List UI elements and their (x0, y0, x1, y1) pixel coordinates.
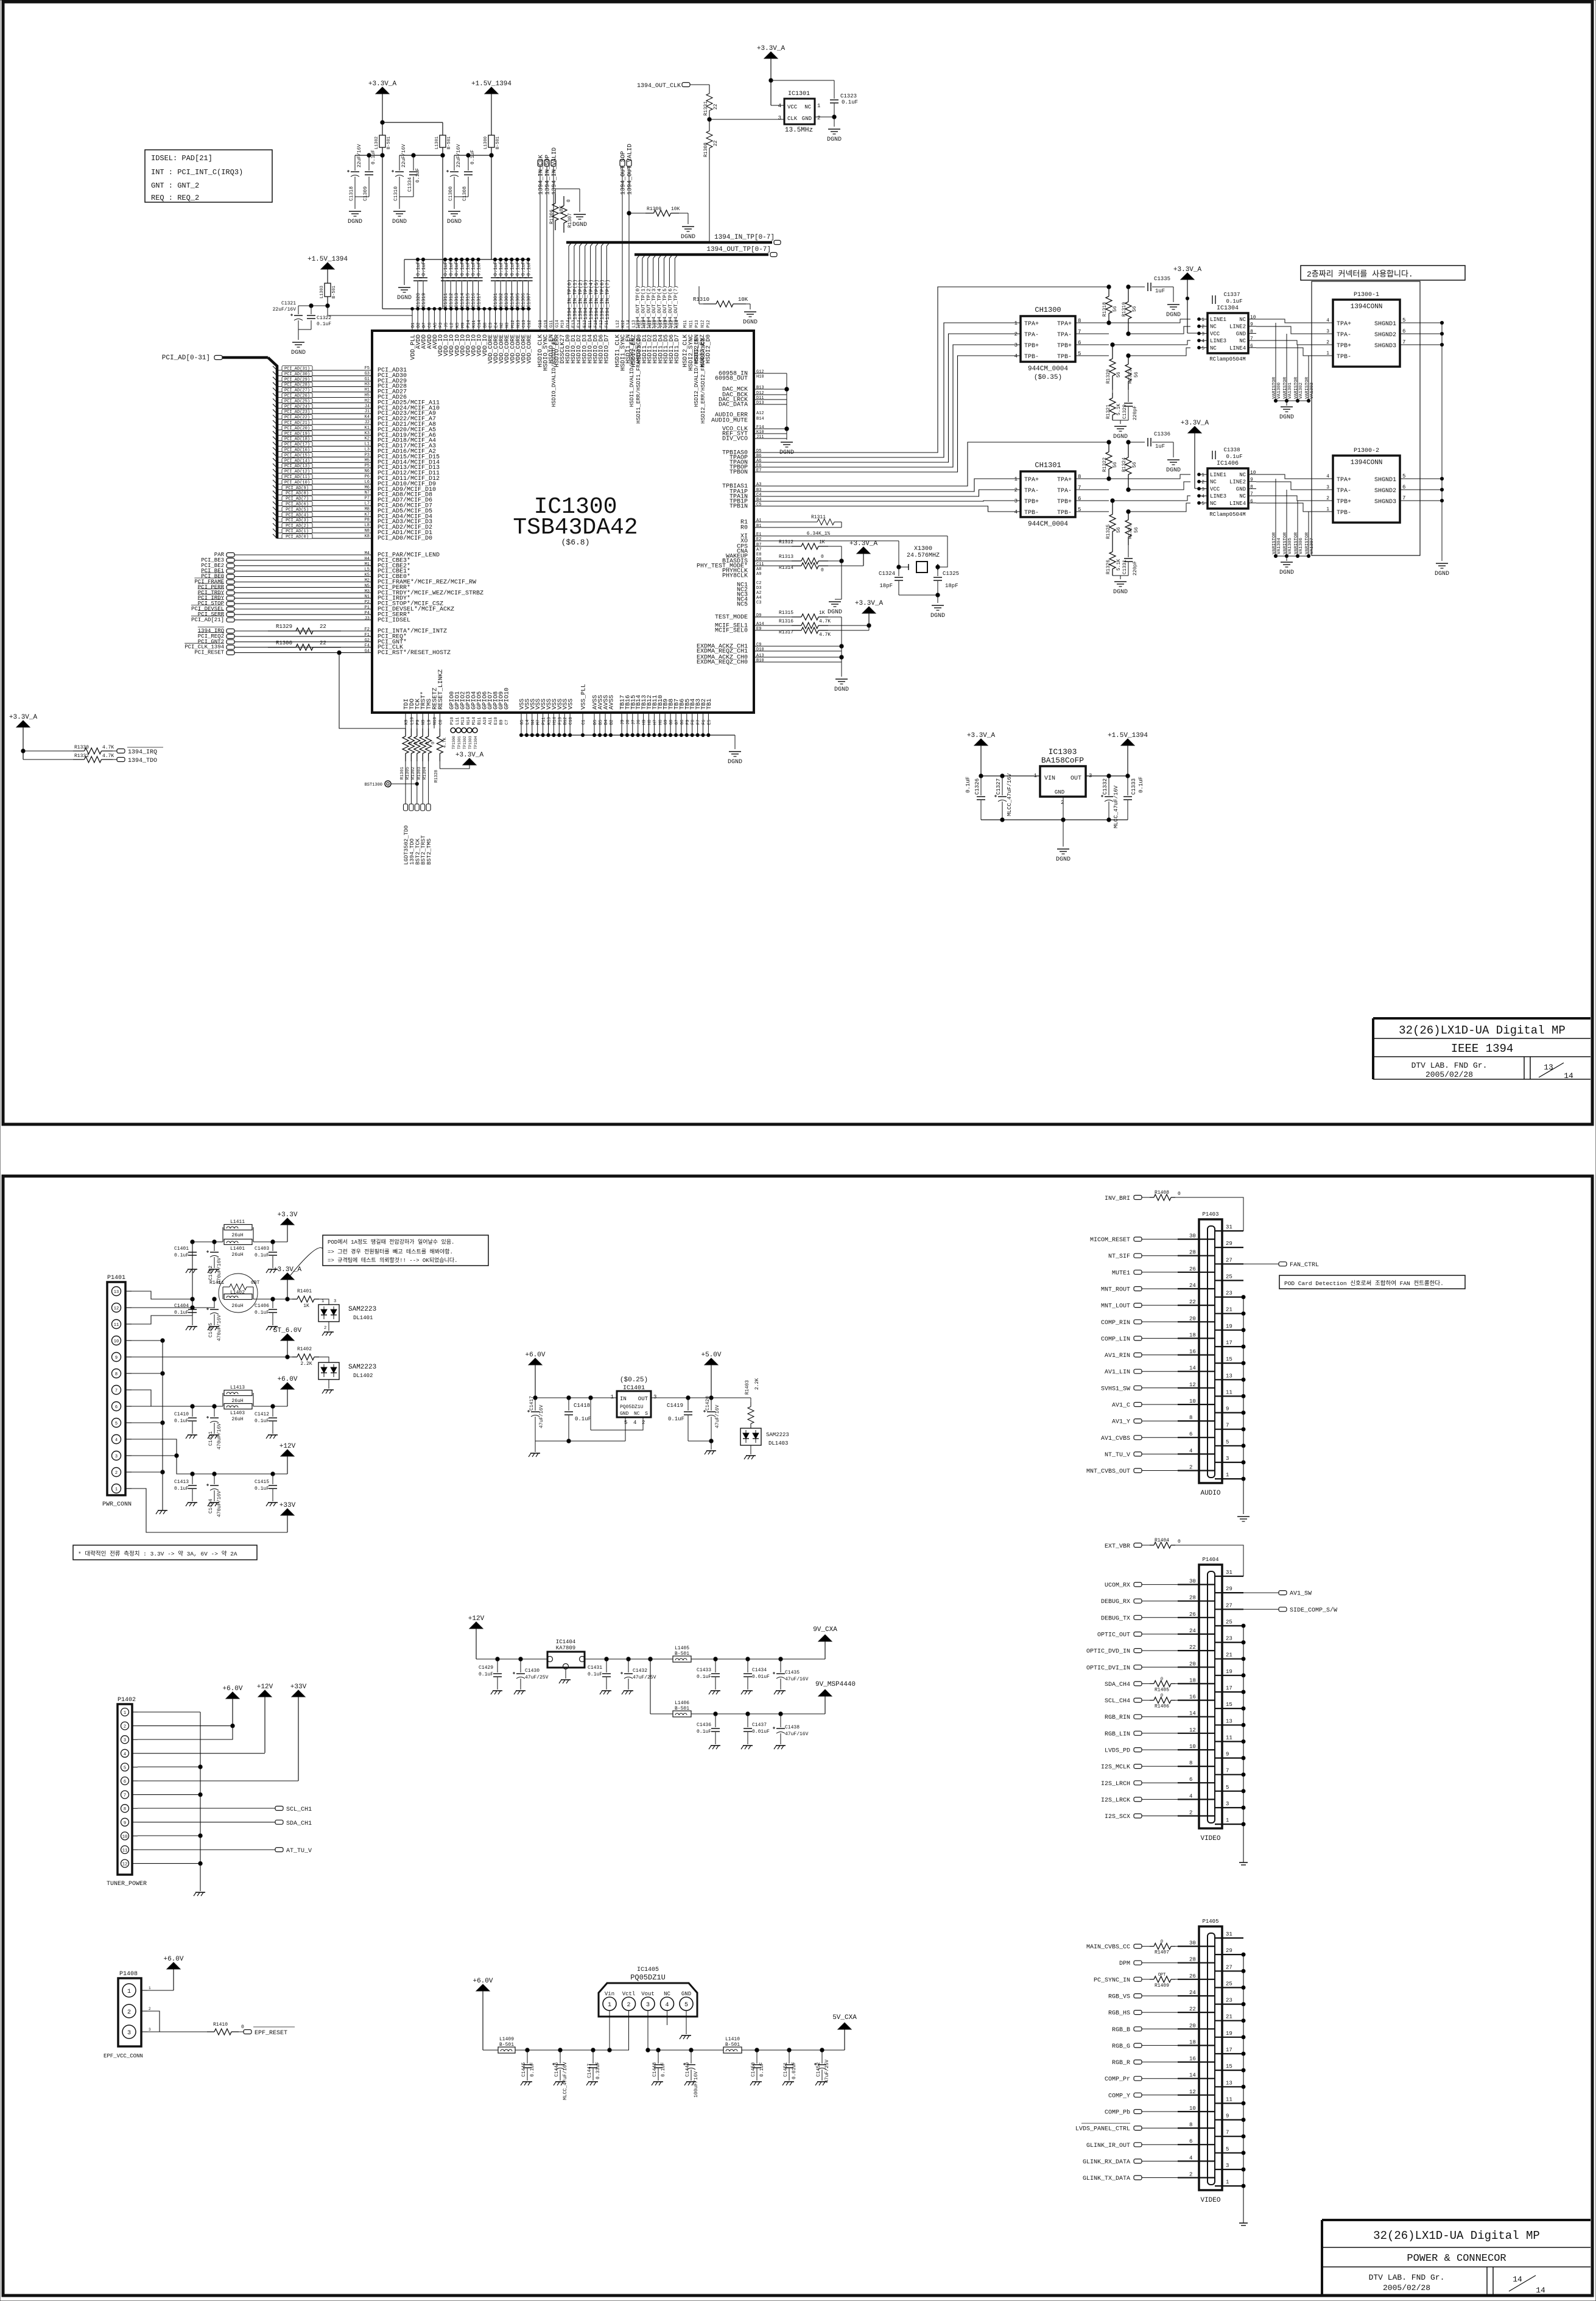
svg-text:0: 0 (1161, 1940, 1163, 1945)
svg-text:DGND: DGND (930, 613, 945, 619)
svg-text:R1325: R1325 (1106, 524, 1111, 539)
svg-text:1: 1 (1326, 507, 1329, 512)
svg-text:R1405: R1405 (1155, 1687, 1169, 1693)
svg-text:H1: H1 (365, 388, 370, 393)
svg-text:AV1_LIN: AV1_LIN (1105, 1369, 1130, 1376)
capacitor C1402 470uF/16V (206, 1240, 222, 1284)
svg-text:23: 23 (1226, 1291, 1232, 1297)
P1403 left signal terminals (1086, 1237, 1199, 1475)
svg-text:C1405: C1405 (208, 1323, 214, 1337)
svg-text:Vctl: Vctl (622, 1991, 636, 1997)
svg-text:27: 27 (1226, 1257, 1232, 1263)
svg-text:10: 10 (1250, 315, 1256, 320)
P1405 right pins and ground bus (1215, 1931, 1243, 2186)
svg-text:IC1304: IC1304 (1217, 305, 1239, 312)
svg-text:0.1uF: 0.1uF (527, 261, 532, 276)
wire VSS ground rail to DGND (521, 735, 742, 766)
svg-text:CLK: CLK (787, 116, 798, 122)
svg-text:9V_CXA: 9V_CXA (813, 1626, 837, 1633)
svg-text:TPA-: TPA- (1337, 332, 1351, 339)
svg-text:TPA-: TPA- (1057, 488, 1072, 495)
svg-text:RGB_HS: RGB_HS (1108, 2010, 1130, 2017)
P1404 left pins (1178, 1579, 1215, 1816)
svg-text:POD에서 1A정도 땡길때 전압강하가 일어날수 있음.: POD에서 1A정도 땡길때 전압강하가 일어날수 있음. (328, 1238, 454, 1246)
svg-text:HSDIO_D7: HSDIO_D7 (604, 334, 611, 364)
svg-text:944CM_0004: 944CM_0004 (1028, 521, 1068, 528)
svg-text:P1408: P1408 (119, 1971, 138, 1978)
svg-text:G3: G3 (365, 372, 370, 376)
svg-text:0.1uF: 0.1uF (842, 99, 858, 105)
regulator IC1401 PQ05DZ1U (611, 1376, 657, 1426)
terminal SDA_CH1 (275, 1820, 312, 1827)
svg-text:G1: G1 (365, 377, 370, 382)
svg-text:LINE1: LINE1 (1210, 472, 1226, 478)
svg-text:VA1306: VA1306 (1299, 537, 1304, 554)
svg-text:K3: K3 (365, 431, 370, 436)
svg-text:A10: A10 (483, 717, 488, 725)
svg-text:R1411: R1411 (209, 1280, 224, 1286)
svg-text:1K: 1K (819, 540, 825, 545)
test points TP1300-TP1304 (451, 728, 478, 749)
svg-text:+3.3V: +3.3V (277, 1211, 297, 1219)
power +6.0V flag at P1408 (163, 1956, 183, 1990)
svg-text:TPA-: TPA- (1057, 332, 1072, 339)
svg-text:PCI_RST*/RESET_HOSTZ: PCI_RST*/RESET_HOSTZ (378, 649, 451, 657)
svg-text:+3.3V_A: +3.3V_A (855, 600, 884, 607)
svg-text:31: 31 (1226, 1570, 1232, 1576)
svg-text:HSDIO_DVALID/HSDIO_EN: HSDIO_DVALID/HSDIO_EN (551, 338, 557, 407)
svg-text:PCI_AD(6): PCI_AD(6) (286, 502, 309, 507)
svg-text:J4: J4 (365, 404, 370, 409)
svg-text:22: 22 (1189, 2006, 1196, 2012)
svg-text:HSDI2_D0: HSDI2_D0 (706, 334, 712, 364)
svg-text:1394CONN: 1394CONN (1351, 459, 1383, 467)
svg-text:TPB+: TPB+ (1337, 499, 1351, 506)
svg-text:I2S_LRCH: I2S_LRCH (1101, 1781, 1130, 1788)
svg-text:4.7K: 4.7K (819, 619, 831, 624)
svg-text:NC5: NC5 (737, 602, 748, 608)
svg-text:C4: C4 (756, 493, 761, 498)
capacitor C1410 0.1uF (174, 1406, 197, 1439)
svg-text:TPB-: TPB- (1337, 510, 1351, 516)
svg-text:0.01uF: 0.01uF (752, 1729, 770, 1735)
svg-text:1K: 1K (819, 610, 825, 616)
svg-text:N1: N1 (365, 594, 370, 599)
svg-text:C1431: C1431 (588, 1665, 602, 1671)
svg-text:VARISTOR: VARISTOR (1283, 376, 1288, 399)
svg-text:P3: P3 (365, 453, 370, 457)
svg-text:R1312: R1312 (779, 540, 793, 545)
svg-text:L9: L9 (427, 720, 432, 725)
title block page 2 (1322, 2220, 1591, 2296)
IC1300 right pin names and numbers (697, 370, 764, 666)
svg-text:AV1_CVBS: AV1_CVBS (1101, 1436, 1130, 1442)
svg-text:1: 1 (817, 103, 820, 109)
svg-text:PCI_AD(7): PCI_AD(7) (286, 497, 309, 502)
svg-text:LINE4: LINE4 (1229, 345, 1246, 351)
diode DL1402 SAM2223 (318, 1362, 376, 1394)
svg-text:TPA+: TPA+ (1057, 321, 1072, 328)
svg-text:25: 25 (1226, 1619, 1232, 1625)
svg-text:5: 5 (124, 1766, 126, 1771)
inductor L1301 B-501 (435, 122, 452, 309)
svg-text:+33V: +33V (290, 1683, 307, 1691)
svg-text:PCI_AD(0): PCI_AD(0) (286, 535, 309, 540)
svg-text:4.7K: 4.7K (102, 745, 114, 750)
svg-text:47uF/25V: 47uF/25V (525, 1675, 549, 1680)
svg-text:3: 3 (334, 1299, 336, 1304)
svg-text:K4: K4 (365, 415, 370, 420)
svg-text:C1307: C1307 (527, 293, 532, 308)
svg-text:GND: GND (1236, 331, 1246, 337)
svg-text:C1313: C1313 (454, 293, 460, 308)
svg-text:3: 3 (1226, 2163, 1229, 2169)
capacitor C1418 0.1uF (564, 1398, 591, 1443)
svg-text:TEST_MODE: TEST_MODE (715, 615, 748, 621)
resistor R1322 56 (1102, 440, 1118, 481)
svg-text:L1303: L1303 (320, 286, 325, 298)
svg-text:24: 24 (1189, 1283, 1196, 1289)
resistor R1312 1K (754, 540, 842, 549)
svg-text:R1408: R1408 (1155, 1190, 1169, 1196)
svg-text:P1402: P1402 (118, 1697, 136, 1704)
svg-text:E10: E10 (494, 717, 499, 725)
capacitor C1417 47uF/16V (527, 1396, 617, 1441)
svg-text:P1403: P1403 (1202, 1211, 1218, 1217)
svg-text:1: 1 (1201, 317, 1204, 323)
svg-text:TPB1N: TPB1N (729, 504, 748, 510)
wire EXDMA rows to DGND (754, 644, 849, 693)
svg-text:4: 4 (1201, 339, 1204, 344)
resistor R1311 6.34K_1% (754, 515, 842, 537)
svg-text:K9: K9 (404, 720, 409, 725)
svg-text:R1331: R1331 (703, 101, 709, 116)
svg-text:PCI_AD(8): PCI_AD(8) (286, 492, 309, 496)
svg-text:18pF: 18pF (879, 583, 893, 589)
svg-text:21: 21 (1226, 1307, 1232, 1313)
oscillator IC1301 13.5MHz (778, 91, 821, 134)
svg-text:G6: G6 (680, 720, 685, 725)
svg-text:MLCC_47uF/16V: MLCC_47uF/16V (563, 2062, 568, 2100)
svg-text:R1303: R1303 (417, 767, 422, 780)
svg-text:2: 2 (115, 1471, 118, 1476)
svg-text:($0.35): ($0.35) (1034, 374, 1062, 381)
svg-text:5: 5 (624, 1420, 627, 1426)
svg-text:G10: G10 (544, 320, 549, 328)
P1405 ground bus (1242, 1953, 1245, 2223)
svg-text:2: 2 (1326, 496, 1329, 501)
svg-text:NT_TU_V: NT_TU_V (1105, 1452, 1130, 1459)
svg-text:C1: C1 (582, 720, 586, 725)
capacitor C1448 0.1uF (652, 2048, 666, 2085)
power +6.0V flag at P1402 (222, 1685, 242, 1725)
svg-text:3: 3 (1326, 329, 1329, 334)
svg-text:0.1uF: 0.1uF (1138, 777, 1144, 793)
svg-text:R1313: R1313 (779, 554, 793, 560)
svg-text:RGB_RIN: RGB_RIN (1105, 1714, 1130, 1721)
svg-text:1uF: 1uF (1155, 288, 1165, 294)
svg-text:N6: N6 (365, 469, 370, 474)
op-amp U1 main IC IC1300 TSB43DA42 body (372, 331, 754, 713)
ground DGND near R1306 (572, 189, 587, 228)
svg-text:C12: C12 (527, 320, 532, 328)
svg-text:+3.3V_A: +3.3V_A (368, 80, 397, 88)
resistor R1403 2.2K (745, 1378, 760, 1428)
capacitor C1451 0.01uF (782, 2050, 797, 2085)
svg-text:VARISTOR: VARISTOR (1305, 532, 1310, 554)
svg-text:2층짜리 커넥터를 사용합니다.: 2층짜리 커넥터를 사용합니다. (1307, 270, 1413, 279)
svg-text:2.2K: 2.2K (300, 1361, 312, 1367)
svg-text:NC: NC (664, 1991, 670, 1997)
svg-text:P12: P12 (706, 320, 711, 328)
IC1300 top pins HSDI2 group (683, 320, 712, 423)
capacitor C1323 0.1uF (815, 93, 858, 143)
capacitor C1420 47uF/16V (688, 1396, 720, 1454)
svg-text:F3: F3 (439, 323, 444, 328)
svg-text:TPB-: TPB- (1337, 354, 1351, 361)
svg-text:R1308: R1308 (703, 143, 709, 157)
svg-text:4: 4 (665, 2002, 669, 2009)
svg-text:PCI_AD(17): PCI_AD(17) (284, 443, 310, 448)
capacitor C1435 47uF/16V (773, 1659, 809, 1694)
svg-text:+12V: +12V (257, 1683, 273, 1691)
svg-text:P6: P6 (365, 474, 370, 479)
wires P1402 pins (138, 1712, 298, 1891)
filter CH1301 944CM_0004 (1014, 461, 1109, 528)
resistor R1329 22 (268, 624, 341, 634)
svg-text:C1322: C1322 (317, 315, 331, 321)
svg-text:K10: K10 (756, 430, 764, 435)
svg-text:D8: D8 (756, 557, 761, 562)
svg-text:DAC_DATA: DAC_DATA (719, 402, 748, 409)
svg-text:K12: K12 (621, 320, 626, 328)
svg-text:PCI_AD(4): PCI_AD(4) (286, 513, 309, 518)
svg-text:VARISTOR: VARISTOR (1272, 376, 1277, 399)
svg-text:G7: G7 (675, 720, 680, 725)
svg-text:DEBUG_RX: DEBUG_RX (1101, 1599, 1130, 1605)
svg-text:C1308: C1308 (462, 186, 468, 201)
svg-text:PCI_IDSEL: PCI_IDSEL (378, 617, 410, 624)
svg-text:F14: F14 (756, 425, 764, 430)
svg-text:+5.0V: +5.0V (701, 1351, 721, 1359)
svg-text:30: 30 (1189, 1579, 1196, 1585)
svg-text:K8: K8 (365, 534, 370, 539)
svg-text:MAIN_CVBS_CC: MAIN_CVBS_CC (1086, 1944, 1130, 1951)
svg-text:TPB-: TPB- (1057, 354, 1072, 361)
svg-text:A6: A6 (756, 459, 761, 463)
svg-text:REQ : REQ_2: REQ : REQ_2 (151, 194, 199, 202)
svg-text:C1325: C1325 (943, 571, 959, 577)
svg-text:22uF/16V: 22uF/16V (401, 144, 407, 167)
page 1 border frame (3, 2, 1592, 1124)
svg-text:POWER & CONNECOR: POWER & CONNECOR (1407, 2253, 1506, 2264)
svg-text:LINE3: LINE3 (1210, 493, 1226, 499)
svg-text:47uF/25V: 47uF/25V (633, 1675, 656, 1680)
svg-text:1: 1 (1201, 473, 1204, 478)
svg-text:22: 22 (1189, 1299, 1196, 1305)
svg-text:DTV LAB. FND Gr.: DTV LAB. FND Gr. (1411, 1061, 1488, 1070)
svg-text:+6.0V: +6.0V (222, 1685, 242, 1693)
IC1300 bottom pins VSS group (519, 684, 588, 737)
svg-text:PCI_AD(2): PCI_AD(2) (286, 524, 309, 529)
svg-text:IEEE 1394: IEEE 1394 (1451, 1042, 1514, 1055)
connector P1401 PWR_CONN (102, 1275, 132, 1508)
svg-text:C1301: C1301 (493, 293, 499, 308)
svg-text:17: 17 (1226, 1340, 1232, 1346)
svg-text:SCL_CH1: SCL_CH1 (286, 1806, 312, 1813)
svg-text:C1418: C1418 (574, 1403, 590, 1409)
svg-text:3: 3 (1326, 485, 1329, 490)
inductor L1413 26uH and L1403 26uH (191, 1385, 287, 1422)
svg-text:3: 3 (1014, 498, 1018, 504)
svg-text:P7: P7 (365, 496, 370, 501)
svg-text:A9: A9 (756, 572, 761, 577)
svg-text:TPB+: TPB+ (1024, 343, 1039, 350)
svg-text:R1402: R1402 (297, 1347, 312, 1352)
svg-text:56: 56 (1113, 306, 1118, 312)
svg-text:9: 9 (115, 1356, 118, 1361)
svg-text:5V_CXA: 5V_CXA (832, 2014, 857, 2021)
svg-text:C1414: C1414 (208, 1499, 214, 1513)
P1404 ground bus (1242, 1624, 1245, 1862)
svg-text:R1306: R1306 (549, 210, 555, 224)
svg-text:R1322: R1322 (1102, 457, 1108, 472)
svg-text:R1324: R1324 (1122, 457, 1127, 472)
svg-text:I2S_LRCK: I2S_LRCK (1101, 1797, 1130, 1804)
resistor R1300 22 (268, 640, 341, 650)
svg-text:C1417: C1417 (529, 1396, 535, 1411)
capacitor C1324 18pF (879, 565, 903, 595)
svg-text:L1402: L1402 (230, 1290, 245, 1295)
P1405 left signal terminals (1075, 1940, 1199, 2182)
svg-text:DGND: DGND (1056, 856, 1070, 863)
resistor R1317 4.7K (754, 625, 869, 638)
svg-text:1: 1 (124, 1711, 126, 1716)
svg-text:1: 1 (1014, 476, 1018, 482)
svg-text:SDA_CH1: SDA_CH1 (286, 1820, 312, 1827)
svg-text:C1338: C1338 (1223, 447, 1240, 453)
wire TPBIAS1 to filter rail (754, 442, 1109, 486)
svg-text:16: 16 (1189, 2056, 1196, 2062)
svg-text:TP1304: TP1304 (474, 736, 478, 749)
svg-text:8: 8 (1189, 1760, 1192, 1766)
svg-text:D4: D4 (604, 720, 609, 725)
svg-text:10K: 10K (738, 297, 748, 303)
svg-text:M5: M5 (365, 458, 370, 463)
svg-text:0.1uF: 0.1uF (521, 261, 527, 276)
outline box around 1394 connectors (1312, 281, 1420, 555)
svg-text:C1310: C1310 (393, 186, 399, 201)
svg-text:F11: F11 (605, 320, 610, 328)
capacitor row C1319 C1320 decoupling (382, 258, 533, 331)
svg-text:2: 2 (1014, 487, 1018, 493)
svg-text:C1316: C1316 (471, 293, 477, 308)
svg-text:MUTE1: MUTE1 (1112, 1270, 1130, 1277)
svg-text:0.1uF: 0.1uF (588, 1672, 602, 1677)
svg-text:13: 13 (1544, 1063, 1553, 1072)
svg-text:H4: H4 (365, 557, 370, 562)
svg-text:VA1300: VA1300 (1277, 382, 1282, 399)
svg-text:B-501: B-501 (447, 136, 452, 149)
svg-text:PCI_AD(26): PCI_AD(26) (284, 394, 310, 399)
svg-text:0.1uF: 0.1uF (515, 261, 521, 276)
svg-text:0.1uF: 0.1uF (174, 1310, 189, 1316)
svg-text:P13: P13 (695, 320, 700, 328)
svg-text:1394_OUT_VALID: 1394_OUT_VALID (627, 144, 634, 195)
svg-text:VSS: VSS (568, 699, 575, 710)
capacitor C1429 0.1uF (476, 1657, 547, 1694)
esd clamp IC1304 RClamp0504M (1198, 292, 1256, 362)
svg-text:C1403: C1403 (255, 1246, 269, 1252)
svg-text:PHY8CLK: PHY8CLK (722, 573, 748, 580)
svg-text:25: 25 (1226, 1274, 1232, 1280)
svg-text:32(26)LX1D-UA Digital MP: 32(26)LX1D-UA Digital MP (1399, 1024, 1566, 1037)
svg-text:R1321: R1321 (1106, 404, 1111, 419)
svg-text:R1409: R1409 (1155, 1983, 1169, 1989)
svg-text:0.1uF: 0.1uF (965, 777, 971, 793)
svg-text:PCI_AD[21]: PCI_AD[21] (191, 617, 224, 623)
svg-text:N11: N11 (689, 320, 694, 328)
svg-text:L5: L5 (365, 568, 370, 573)
svg-text:IC1405: IC1405 (637, 1967, 659, 1973)
svg-text:SCL_CH4: SCL_CH4 (1105, 1698, 1130, 1705)
ground DGND varistor bank 1 (1279, 407, 1294, 421)
svg-text:D1: D1 (411, 323, 416, 328)
svg-text:J3: J3 (365, 616, 370, 621)
svg-text:M9: M9 (461, 323, 466, 328)
svg-text:30: 30 (1189, 1940, 1196, 1947)
svg-text:B-501: B-501 (499, 2042, 514, 2048)
svg-text:L11: L11 (455, 717, 460, 725)
svg-text:22: 22 (1189, 1644, 1196, 1651)
svg-text:P1300-1: P1300-1 (1354, 292, 1379, 298)
svg-text:B9: B9 (499, 720, 504, 725)
svg-text:C1305: C1305 (515, 293, 521, 308)
svg-text:TPA-: TPA- (1337, 488, 1351, 495)
node 1394_IN_TP[0-7] bus (566, 234, 781, 245)
svg-text:8: 8 (115, 1372, 118, 1377)
svg-text:27: 27 (1226, 1964, 1232, 1970)
svg-text:7: 7 (1226, 1768, 1229, 1774)
svg-text:5: 5 (1226, 2146, 1229, 2152)
svg-text:PCI_AD(24): PCI_AD(24) (284, 404, 310, 409)
svg-text:R1309: R1309 (647, 206, 661, 212)
svg-text:EXDMA_REQZ_CH0: EXDMA_REQZ_CH0 (697, 660, 748, 666)
svg-text:0.1uF: 0.1uF (454, 261, 460, 276)
regulator IC1405 PQ05DZ1U 5-pin (599, 1967, 697, 2017)
svg-text:C1432: C1432 (633, 1668, 647, 1674)
svg-text:R1316: R1316 (779, 619, 793, 624)
svg-text:C1449: C1449 (685, 2062, 691, 2077)
wires P1401 to power rails (132, 1242, 292, 1532)
power 9V_CXA flag (813, 1626, 837, 1659)
svg-text:3: 3 (127, 2030, 131, 2037)
svg-text:C1319: C1319 (421, 293, 427, 308)
power +3.3V_A flag page2 (273, 1266, 302, 1299)
svg-text:1394_IRQ: 1394_IRQ (128, 749, 157, 756)
svg-text:EXT_VBR: EXT_VBR (1105, 1543, 1130, 1550)
svg-text:0.1uF: 0.1uF (415, 168, 421, 183)
resistor R1301 0 (400, 728, 413, 780)
svg-text:6: 6 (1189, 2138, 1192, 2144)
resistor R1326 5.1K (1106, 545, 1122, 576)
svg-text:L8: L8 (365, 523, 370, 528)
svg-text:0BT: 0BT (251, 1280, 260, 1286)
capacitor C1414 470uF/16V (206, 1474, 222, 1517)
svg-text:4: 4 (1189, 2155, 1192, 2161)
svg-text:3: 3 (778, 115, 781, 121)
svg-text:4: 4 (1326, 474, 1329, 479)
